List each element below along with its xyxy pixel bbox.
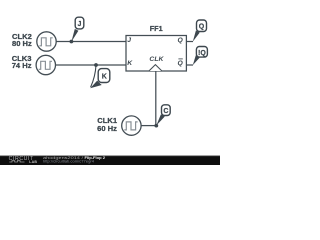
clock source CLK1 — [122, 116, 141, 135]
svg-text:K: K — [102, 73, 107, 80]
footer bar — [0, 156, 220, 165]
svg-text:Q: Q — [178, 37, 184, 44]
flag C bubble — [162, 105, 171, 116]
flag C pointer — [156, 114, 165, 125]
node C junction dot — [154, 124, 158, 128]
svg-text:FF1: FF1 — [150, 24, 163, 33]
svg-text:74 Hz: 74 Hz — [12, 61, 32, 70]
svg-text:CLK: CLK — [149, 56, 164, 63]
svg-text:!Q: !Q — [198, 50, 206, 57]
flag K bubble — [98, 69, 110, 83]
svg-text:Q: Q — [199, 24, 205, 31]
flag Q pointer — [193, 31, 200, 42]
wire CLK pin down — [155, 71, 157, 126]
flag J pointer — [71, 29, 78, 42]
svg-text:LAB: LAB — [29, 160, 37, 164]
svg-text:Q: Q — [178, 60, 184, 67]
wire Q stub — [186, 41, 193, 43]
node J junction dot — [70, 40, 74, 44]
clock source CLK3 — [36, 55, 55, 74]
node K junction dot — [94, 63, 98, 67]
flag Q bubble — [197, 20, 207, 32]
flag !Q bubble — [196, 47, 207, 58]
flag K pointer — [91, 65, 96, 87]
svg-text:80 Hz: 80 Hz — [12, 39, 32, 48]
svg-text:http://circuitlab.com/c77egr4: http://circuitlab.com/c77egr4 — [43, 159, 94, 163]
svg-text:J: J — [78, 21, 82, 28]
svg-text:J: J — [127, 37, 131, 44]
wire CLK1 to junction — [141, 125, 156, 127]
clock edge triangle — [149, 65, 162, 71]
flip-flop FF1 box — [126, 36, 186, 72]
flag J bubble — [75, 17, 84, 29]
clock source CLK2 — [37, 32, 56, 51]
wire Qbar stub — [186, 64, 193, 66]
svg-text:C: C — [163, 108, 168, 115]
wire CLK2 to J pin — [56, 41, 126, 43]
wire CLK3 to K pin — [56, 64, 126, 66]
svg-text:60 Hz: 60 Hz — [97, 124, 117, 133]
flag !Q pointer — [193, 55, 200, 65]
